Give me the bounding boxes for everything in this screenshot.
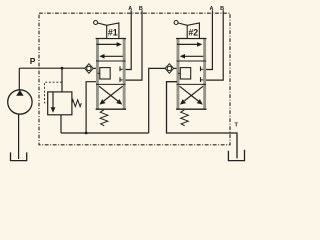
node bus junction bbox=[85, 132, 88, 135]
check valve CV2 bbox=[165, 64, 174, 73]
wire pump suction bbox=[18, 114, 20, 159]
svg-text:B: B bbox=[139, 6, 143, 12]
valve V2 bbox=[174, 21, 206, 126]
tank T2 (return) bbox=[228, 150, 244, 161]
svg-text:B: B bbox=[220, 6, 224, 12]
node relief tap junction bbox=[61, 67, 64, 70]
svg-text:A: A bbox=[210, 6, 214, 12]
svg-text:P: P bbox=[30, 56, 36, 66]
wire V2 bypass to tank bbox=[167, 82, 238, 159]
pump P1 bbox=[8, 90, 32, 114]
svg-text:#1: #1 bbox=[108, 27, 118, 37]
tank T1 (pump) bbox=[11, 152, 27, 160]
wire relief outlet bbox=[60, 115, 62, 133]
check valve CV1 bbox=[85, 64, 94, 73]
relief pilot line (dashed) bbox=[45, 82, 63, 103]
wire V2 port A bbox=[206, 10, 212, 69]
wire V2 port B bbox=[206, 10, 223, 80]
svg-text:#2: #2 bbox=[188, 27, 198, 37]
wire P supply bbox=[19, 67, 84, 69]
enclosure boundary (dash-dot) bbox=[39, 13, 230, 145]
wire pump outlet riser bbox=[18, 68, 20, 90]
wire V1 port B bbox=[126, 10, 142, 80]
wire V1 port A bbox=[126, 10, 132, 69]
wire carryover feed to V2 bbox=[149, 68, 165, 133]
svg-text:A: A bbox=[128, 6, 132, 12]
relief valve RV1 bbox=[48, 92, 72, 115]
wire V1 bypass port bbox=[86, 82, 96, 133]
relief spring bbox=[72, 100, 81, 107]
wire relief inlet bbox=[61, 68, 63, 92]
valve V1 bbox=[94, 21, 126, 126]
wire return bus (relief to carryover) bbox=[61, 132, 149, 134]
